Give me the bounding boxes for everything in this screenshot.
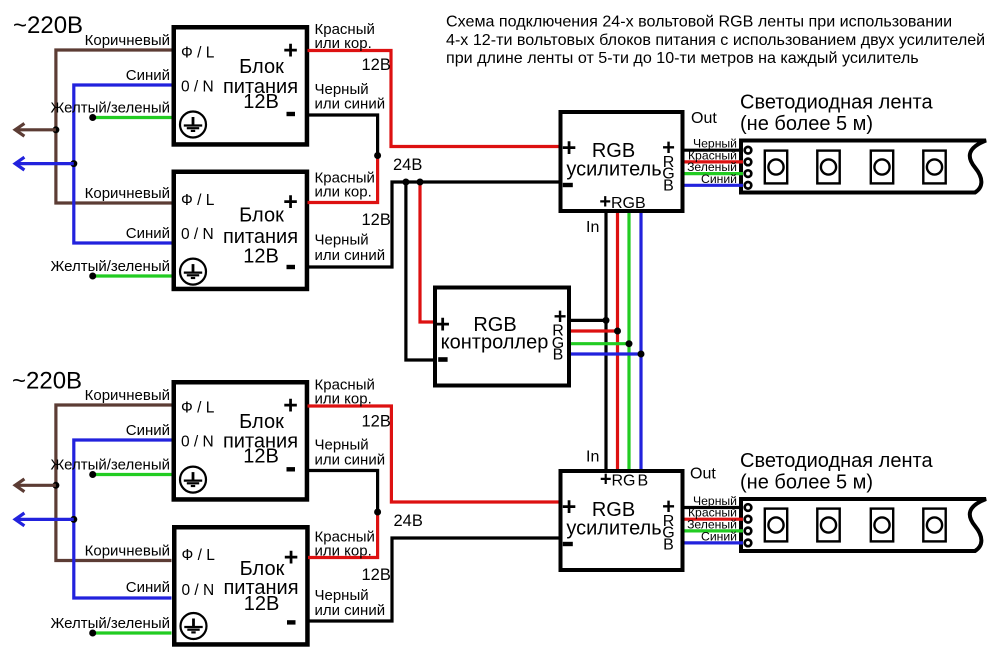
wire green from A2 to strip 2 [685, 529, 744, 532]
svg-text:24В: 24В [393, 156, 422, 174]
RGB amplifier A1 [561, 112, 683, 211]
LED module 2.2 [817, 509, 839, 542]
power supply U2 "Блок питания 12В" [174, 172, 307, 289]
earth wire end dot at y=276 [89, 273, 96, 280]
svg-text:или синий: или синий [315, 452, 386, 469]
arrow to AC mains, brown wire (section 2) [15, 479, 56, 492]
minus terminal of U1 [287, 112, 296, 116]
minus input terminal of A2 [563, 542, 573, 546]
svg-text:Схема подключения 24-х вольтов: Схема подключения 24-х вольтовой RGB лен… [446, 13, 952, 31]
arrow to AC mains, blue wire (section 1) [15, 157, 74, 170]
svg-text:12В: 12В [243, 91, 279, 113]
wire red +12V from U1 to amplifier A1 plus [308, 51, 559, 147]
svg-text:4-х 12-ти вольтовых блоков пит: 4-х 12-ти вольтовых блоков питания с исп… [446, 31, 985, 49]
LED strip 1 title [740, 92, 933, 136]
wire label Черный или синий (U1) [315, 81, 386, 113]
junction on blue bus (section 2) [70, 516, 77, 523]
connector pin 4 of strip 1 [745, 182, 752, 189]
svg-text:(не более 5 м): (не более 5 м) [740, 472, 873, 494]
wire blue neutral bus (section 2) [74, 440, 172, 598]
svg-text:или кор.: или кор. [315, 391, 372, 408]
name label of A1 [566, 140, 661, 181]
svg-text:+: + [283, 391, 298, 419]
wire label Красный или кор. (U3) [315, 377, 375, 408]
wire label Черный или синий (U2) [315, 232, 386, 265]
junction on brown bus (section 2) [52, 482, 59, 489]
connector pin 1 of strip 2 [745, 504, 752, 511]
wire brown phase bus (section 1) [56, 50, 172, 203]
arrow to AC mains, brown wire (section 1) [15, 123, 56, 136]
connector pin 2 of strip 1 [745, 159, 752, 166]
svg-text:Out: Out [690, 466, 716, 483]
junction green G controller-to-bus [626, 340, 633, 347]
wire label Черный или синий (U3) [315, 437, 386, 469]
svg-text:или синий: или синий [315, 602, 386, 619]
svg-text:или кор.: или кор. [315, 543, 372, 560]
wire black + bus from A1 In to A2 In [604, 213, 607, 469]
svg-text:0 / N: 0 / N [181, 226, 214, 243]
wire blue neutral bus (section 1) [74, 85, 172, 243]
svg-text:12В: 12В [362, 56, 391, 74]
earth terminal symbol of U4 [181, 613, 207, 639]
wire black from A2 to strip 2 [685, 506, 744, 509]
svg-text:+: + [283, 36, 298, 64]
LED strip 2 body [741, 499, 986, 551]
wire blue B from controller output to bus [571, 352, 641, 355]
wire label Красный или кор. (U1) [315, 21, 375, 52]
name label of A3 [441, 314, 549, 354]
wire label Красный или кор. (U4) [315, 529, 375, 560]
wire red +12V from junction to U2 plus [308, 156, 378, 203]
svg-text:Желтый/зеленый: Желтый/зеленый [50, 100, 170, 117]
junction 24V rail to controller plus [417, 179, 424, 186]
svg-text:0 / N: 0 / N [182, 582, 215, 599]
svg-text:Блок: Блок [239, 56, 284, 78]
earth terminal symbol of U3 [180, 467, 206, 493]
earth terminal symbol of U1 [180, 112, 206, 138]
wire blue from A2 to strip 2 [685, 541, 744, 544]
svg-text:12В: 12В [362, 211, 391, 229]
svg-text:Желтый/зеленый: Желтый/зеленый [50, 258, 170, 275]
LED module 2.3 [871, 509, 893, 542]
svg-text:Блок: Блок [239, 205, 284, 227]
name label of U4 [223, 558, 298, 615]
wire black -24V from U2 to amplifier A1 minus [308, 182, 559, 267]
svg-text:~220В: ~220В [13, 12, 83, 39]
svg-text:Синий: Синий [126, 422, 170, 439]
svg-text:или синий: или синий [315, 96, 386, 113]
svg-text:Ф / L: Ф / L [181, 192, 215, 209]
svg-text:B: B [663, 537, 674, 554]
svg-text:+RGB: +RGB [599, 191, 645, 213]
svg-text:12В: 12В [362, 413, 391, 431]
series junction U1- to U2+ [374, 152, 381, 159]
wire green from A1 to strip 1 [685, 172, 744, 175]
output terminals +RGB of A2 [662, 494, 675, 554]
svg-text:12В: 12В [244, 593, 280, 615]
schematic title text [446, 13, 985, 68]
wire green G from controller output to bus [571, 342, 629, 345]
wire black + from controller output to bus [571, 319, 606, 322]
svg-text:Коричневый: Коричневый [85, 32, 170, 49]
svg-text:Out: Out [691, 110, 717, 127]
svg-text:или синий: или синий [315, 247, 386, 264]
LED module 2.4 [923, 509, 945, 542]
LED module 1.1 [765, 151, 787, 184]
svg-text:усилитель: усилитель [566, 518, 661, 540]
svg-text:контроллер: контроллер [441, 332, 549, 354]
svg-text:усилитель: усилитель [566, 159, 661, 181]
wire black from rail to controller minus [406, 182, 433, 360]
output terminals +RGB of A3 [552, 304, 567, 364]
svg-text:Синий: Синий [701, 172, 737, 186]
connector pin 2 of strip 2 [745, 516, 752, 523]
junction 24V rail to controller minus [402, 179, 409, 186]
svg-text:или кор.: или кор. [315, 184, 372, 201]
minus terminal of U3 [287, 467, 296, 471]
minus input terminal of A3 [438, 357, 447, 362]
earth wire end dot at y=117.5 [89, 114, 96, 121]
svg-text:+: + [284, 543, 299, 571]
wire red from A1 to strip 1 [685, 160, 744, 163]
earth wire end dot at y=633 [89, 630, 96, 637]
svg-text:или кор.: или кор. [315, 35, 372, 52]
wire red from A2 to strip 2 [685, 518, 744, 521]
junction black + controller-to-bus [603, 317, 610, 324]
svg-text:24В: 24В [394, 512, 423, 530]
RGB amplifier A2 [561, 471, 683, 570]
svg-text:+: + [283, 188, 298, 216]
svg-text:Желтый/зеленый: Желтый/зеленый [50, 457, 170, 474]
power supply U4 "Блок питания 12В" [174, 527, 307, 644]
wire yellow/green earth at y=474.5 [93, 473, 172, 476]
LED strip 1 body [741, 141, 986, 193]
connector pin 3 of strip 1 [745, 170, 752, 177]
LED module 2.1 [765, 509, 787, 542]
wire black from A1 to strip 1 [685, 149, 744, 152]
name label of A2 [566, 499, 661, 540]
svg-text:In: In [586, 219, 599, 236]
svg-text:+RGB: +RGB [600, 469, 648, 491]
svg-text:при длине ленты от 5-ти до 10-: при длине ленты от 5-ти до 10-ти метров … [446, 49, 919, 67]
minus input terminal of A1 [563, 183, 573, 187]
svg-text:Светодиодная лента: Светодиодная лента [740, 450, 933, 472]
svg-text:12В: 12В [243, 446, 279, 468]
series junction U3- to U4+ [374, 509, 381, 516]
name label of U2 [223, 205, 298, 268]
svg-text:B: B [553, 347, 564, 364]
svg-text:Синий: Синий [126, 579, 170, 596]
svg-text:Коричневый: Коричневый [85, 387, 170, 404]
wire blue B bus from A1 In to A2 In [639, 213, 642, 469]
svg-text:Синий: Синий [126, 67, 170, 84]
svg-text:Синий: Синий [126, 225, 170, 242]
wire black -12V from U3 to series junction [308, 471, 378, 513]
svg-text:Коричневый: Коричневый [85, 543, 170, 560]
svg-text:12В: 12В [243, 246, 279, 268]
wire green G bus from A1 In to A2 In [627, 213, 630, 469]
name label of U3 [223, 411, 298, 468]
junction red R controller-to-bus [614, 328, 621, 335]
junction on blue bus (section 1) [70, 160, 77, 167]
LED module 1.2 [817, 151, 839, 184]
svg-text:Ф / L: Ф / L [181, 400, 215, 417]
connector pin 3 of strip 2 [745, 528, 752, 535]
wire yellow/green earth at y=633 [93, 631, 172, 634]
arrow to AC mains, blue wire (section 2) [15, 513, 74, 526]
RGB controller A3 [435, 288, 569, 386]
svg-text:Ф / L: Ф / L [182, 547, 216, 564]
LED strip 2 title [740, 450, 933, 494]
svg-text:Коричневый: Коричневый [85, 185, 170, 202]
wire red from rail to controller plus [420, 182, 433, 322]
wire red +12V from junction to U4 plus [308, 512, 378, 558]
output terminals +RGB of A1 [662, 135, 675, 195]
wire red R from controller output to bus [571, 329, 618, 332]
power supply U3 "Блок питания 12В" [174, 382, 307, 499]
junction on brown bus (section 1) [52, 126, 59, 133]
connector pin 1 of strip 1 [745, 147, 752, 154]
svg-text:Светодиодная лента: Светодиодная лента [740, 92, 933, 114]
svg-text:Черный: Черный [315, 232, 369, 249]
wire brown phase bus (section 2) [56, 405, 172, 561]
svg-text:Синий: Синий [701, 529, 737, 543]
junction blue B controller-to-bus [638, 351, 645, 358]
connector pin 4 of strip 2 [745, 540, 752, 547]
wire blue from A1 to strip 1 [685, 184, 744, 187]
svg-text:12В: 12В [362, 566, 391, 584]
wire label Красный или кор. (U2) [315, 170, 375, 201]
wire label Черный или синий (U4) [315, 587, 386, 619]
wire yellow/green earth at y=276 [93, 274, 172, 277]
minus terminal of U2 [287, 265, 296, 269]
name label of U1 [223, 56, 298, 113]
svg-text:Желтый/зеленый: Желтый/зеленый [50, 615, 170, 632]
wire red R bus from A1 In to A2 In [616, 213, 619, 469]
svg-text:0 / N: 0 / N [181, 79, 214, 96]
wire yellow/green earth at y=117.5 [93, 116, 172, 119]
svg-text:B: B [663, 178, 674, 195]
earth wire end dot at y=474.5 [89, 471, 96, 478]
wire black -24V from U4 to amplifier A2 minus [308, 538, 559, 621]
wire black -12V from U1 to series junction [308, 115, 378, 156]
svg-text:In: In [586, 449, 599, 466]
wire red +12V from U3 to amplifier A2 plus [308, 406, 559, 502]
LED module 1.3 [871, 151, 893, 184]
svg-text:~220В: ~220В [12, 368, 82, 395]
minus terminal of U4 [287, 620, 296, 624]
earth terminal symbol of U2 [180, 259, 206, 285]
svg-text:0 / N: 0 / N [181, 434, 214, 451]
svg-text:(не более 5 м): (не более 5 м) [740, 113, 873, 135]
svg-text:Ф / L: Ф / L [181, 45, 215, 62]
power supply U1 "Блок питания 12В" [174, 27, 307, 144]
LED module 1.4 [923, 151, 945, 184]
